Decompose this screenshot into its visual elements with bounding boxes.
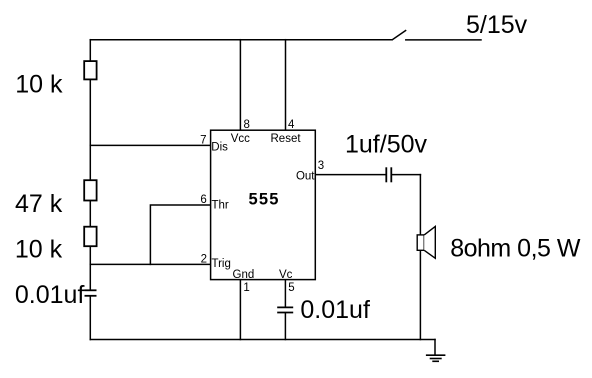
svg-text:Dis: Dis <box>211 142 228 154</box>
svg-text:5/15v: 5/15v <box>466 11 528 39</box>
svg-text:2: 2 <box>201 254 207 266</box>
speaker LS1 <box>417 226 435 258</box>
svg-text:1: 1 <box>243 282 249 294</box>
resistor R2 47k <box>84 180 96 200</box>
svg-text:47 k: 47 k <box>15 190 63 218</box>
svg-text:10 k: 10 k <box>15 71 63 99</box>
wire pin5 Vc lower <box>284 313 286 339</box>
capacitor C2 0.01uf plates <box>277 307 293 312</box>
wire ground stem <box>434 340 436 355</box>
svg-text:Trig: Trig <box>212 258 231 270</box>
wire pin8 Vcc <box>239 40 241 131</box>
wire bottom rail <box>90 339 435 341</box>
wire Out cap to speaker <box>392 174 421 176</box>
svg-text:Vc: Vc <box>279 269 293 281</box>
svg-text:Thr: Thr <box>212 199 229 211</box>
wire left rail between R3 and C1 <box>89 246 91 289</box>
svg-text:3: 3 <box>318 160 324 172</box>
svg-text:8ohm 0,5 W: 8ohm 0,5 W <box>450 234 581 262</box>
svg-text:1uf/50v: 1uf/50v <box>345 131 428 159</box>
wire left rail between R2 and R3 <box>89 201 91 227</box>
svg-text:8: 8 <box>244 119 250 131</box>
ground <box>426 355 446 361</box>
wire pin7 Dis <box>90 144 210 146</box>
switch S1 lever <box>392 31 405 40</box>
wire top rail <box>90 39 391 41</box>
wire pin5 Vc upper <box>284 280 286 307</box>
svg-text:Vcc: Vcc <box>231 133 250 145</box>
wire pin6 Thr <box>150 205 210 264</box>
wire top rail right of switch <box>406 39 481 41</box>
svg-text:Gnd: Gnd <box>233 269 255 281</box>
capacitor C1 0.01uf plates <box>85 290 97 296</box>
wire pin4 Reset <box>285 40 287 131</box>
wire left rail between R1 and R2 <box>89 79 91 180</box>
svg-text:5: 5 <box>288 282 294 294</box>
svg-text:Reset: Reset <box>271 133 302 145</box>
wire left rail top <box>89 40 91 61</box>
wire pin3 Out <box>315 174 385 176</box>
wire pin2 Trig <box>90 263 210 265</box>
svg-text:Out: Out <box>296 171 315 183</box>
svg-text:4: 4 <box>288 119 295 131</box>
svg-text:0.01uf: 0.01uf <box>300 296 370 324</box>
op-amp U1 555 box <box>211 130 316 279</box>
wire left rail below C1 <box>89 297 91 340</box>
resistor R3 10k <box>84 227 96 247</box>
wire pin1 Gnd <box>239 280 241 340</box>
svg-text:0.01uf: 0.01uf <box>15 281 85 309</box>
svg-text:555: 555 <box>249 191 280 209</box>
svg-text:6: 6 <box>200 194 206 206</box>
capacitor C3 1uf/50v plates <box>386 167 391 182</box>
svg-text:7: 7 <box>200 134 206 146</box>
wire speaker vertical <box>419 175 421 340</box>
svg-text:10 k: 10 k <box>15 236 63 264</box>
resistor R1 10k <box>84 61 96 79</box>
